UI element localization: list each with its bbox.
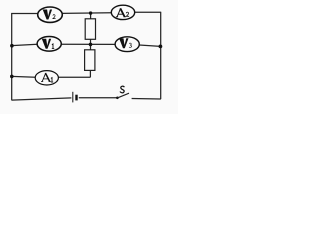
wire top middle V2 to A2 <box>62 12 111 15</box>
wire right vertical <box>160 12 162 99</box>
ammeter A1 <box>35 71 58 85</box>
wire left vertical <box>11 13 13 100</box>
wire row2 V3 to right wire <box>139 45 160 46</box>
node junction row2 middle <box>89 43 93 47</box>
wire top-right A2 to corner <box>135 11 162 13</box>
resistor R2 <box>85 50 95 71</box>
node junction top middle <box>89 11 92 14</box>
wire R2 bottom stub <box>89 70 91 77</box>
wire row3 left to A1 <box>12 75 36 78</box>
switch S <box>116 86 129 99</box>
node junction row3 left <box>10 75 14 79</box>
wire row2 V1 to V3 <box>61 43 115 45</box>
wire bottom left to battery <box>12 98 72 100</box>
voltmeter V2 <box>38 7 63 22</box>
voltmeter V3 <box>115 37 139 52</box>
node junction row2 right <box>159 45 163 49</box>
ammeter A2 <box>111 5 134 19</box>
wire R1 top stub <box>90 13 92 19</box>
battery <box>73 92 77 103</box>
wire bottom right switch to corner <box>132 98 161 101</box>
wire battery to switch <box>79 97 117 99</box>
wire R1 to R2 link <box>90 39 92 50</box>
wire row2 left to V1 <box>12 44 38 45</box>
node junction row2 left <box>10 44 14 48</box>
voltmeter V1 <box>37 37 61 52</box>
wire top-left horizontal <box>11 13 38 15</box>
wire row3 A1 to R2 bottom <box>58 76 90 78</box>
resistor R1 <box>85 19 95 40</box>
